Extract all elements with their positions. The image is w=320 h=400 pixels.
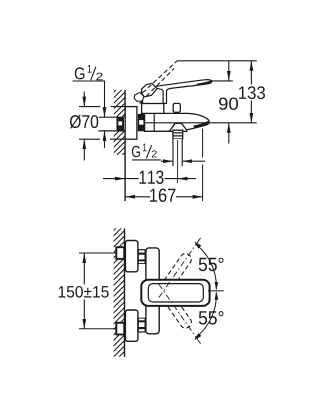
dashed centerline +55: [159, 243, 197, 297]
fraction slash G1/2 bottom: [146, 145, 151, 158]
extension lines for 150±15: [79, 253, 116, 329]
wall hatching (lower view): [106, 212, 132, 381]
reference line from lever top (90 top): [211, 80, 233, 82]
label 55°: [199, 311, 224, 325]
label 1: [143, 144, 146, 152]
label 133: [239, 86, 265, 99]
reference line from raised handle tip (133 top): [177, 60, 257, 62]
body seam: [153, 113, 155, 131]
shower outlet pipe G1/2: [173, 139, 182, 166]
escutcheon: [125, 107, 137, 140]
dimension 90: [228, 61, 230, 144]
supply pipe through wall: [99, 117, 125, 131]
label 2: [152, 150, 157, 157]
inlet union square (bottom inlet): [116, 323, 124, 335]
hex nut (lower view, bottom inlet): [138, 318, 146, 333]
lever knob (solid position): [142, 83, 157, 96]
angle arc top: [195, 244, 216, 289]
dimension 133: [250, 61, 252, 123]
handle swivel dashed position +55: [161, 252, 193, 291]
body (lower view): [146, 248, 159, 334]
dimension 113: [103, 178, 196, 180]
lever handle (solid, horizontal): [153, 80, 212, 104]
lever tip dark edge: [197, 81, 211, 84]
G1/2 top label leader: [73, 80, 106, 82]
label 1: [88, 65, 92, 73]
G1/2 bottom label leaders: [132, 159, 161, 161]
label G: [132, 146, 140, 158]
outlet connector ring: [173, 130, 183, 139]
label 150±15: [59, 286, 109, 298]
spout tip dark underside: [194, 122, 209, 127]
dimension 167: [125, 196, 203, 198]
dimension line 150±15: [83, 253, 85, 329]
centerline solid extensions: [197, 238, 201, 344]
handle swivel dashed position -55: [161, 291, 193, 330]
spout outlet cone: [169, 123, 186, 131]
lever handle raised (dashed): [143, 61, 178, 96]
horizontal centerline at handle tip: [208, 290, 224, 292]
lever handle raised knob (dashed position): [134, 92, 144, 101]
wall face line (lower view): [124, 228, 126, 356]
escutcheon (lower view, top inlet): [125, 241, 137, 272]
handle inner contour: [148, 284, 203, 302]
label Ø70: [70, 115, 98, 129]
dimension Ø70 ticks: [79, 107, 125, 140]
handle (solid, lower view) outer: [141, 280, 209, 306]
inlet union square (top inlet): [116, 247, 124, 259]
pipe center extension line: [177, 140, 179, 183]
reference line at spout outlet level (90/133 bottom): [145, 122, 257, 124]
label 167: [150, 189, 176, 203]
label 55°: [199, 258, 224, 272]
dimension Ø70 arrows: [83, 92, 85, 161]
hex nut on supply pipe: [117, 118, 125, 131]
label 90: [219, 98, 238, 110]
S-union hex nut: [138, 114, 145, 131]
extension line at spout tip (167): [202, 129, 204, 202]
dark undercut below knob: [139, 100, 144, 104]
dashed centerline -55: [159, 284, 197, 338]
hex nut (lower view, top inlet): [138, 249, 146, 264]
wall face line (upper view): [124, 90, 126, 201]
label G: [75, 67, 85, 79]
label 113: [140, 171, 164, 185]
fraction slash G1/2 top: [91, 67, 96, 81]
escutcheon (lower view, bottom inlet): [125, 310, 137, 341]
label 2: [96, 73, 102, 81]
mixer body + spout silhouette: [145, 113, 210, 131]
diverter knob: [173, 103, 180, 112]
cartridge housing: [142, 104, 164, 114]
angle arc bottom: [195, 293, 216, 338]
wall hatching (upper view): [106, 74, 132, 177]
